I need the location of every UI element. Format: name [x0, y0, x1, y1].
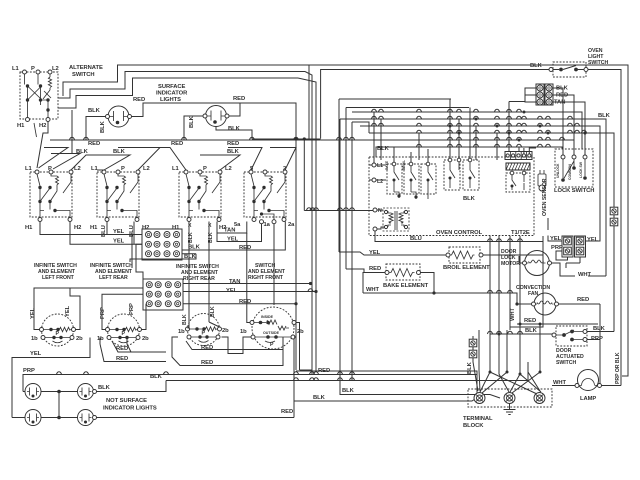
- wire s4 drops: [182, 222, 285, 251]
- svg-text:INDICATOR: INDICATOR: [156, 91, 188, 97]
- convection fan: [532, 293, 559, 315]
- wire xzone extra: [480, 362, 540, 392]
- wire s2h1 drop: [106, 222, 108, 235]
- wire s3 h2 to e3: [209, 241, 220, 327]
- wire oven light feed: [321, 70, 549, 139]
- infinite switch 1: [30, 170, 73, 222]
- svg-text:TAN: TAN: [224, 228, 235, 234]
- wire 2a rail: [295, 140, 297, 370]
- wire wht lamp: [552, 385, 575, 387]
- wire blk block1: [130, 254, 196, 262]
- svg-text:H1: H1: [25, 225, 33, 231]
- oven control terminal 2: [372, 178, 376, 182]
- wire red 327: [510, 255, 543, 327]
- door lock motor: [523, 251, 552, 276]
- svg-text:RED: RED: [227, 141, 239, 147]
- wire wht motor right: [588, 275, 606, 277]
- svg-text:LOCK SWITCH: LOCK SWITCH: [554, 188, 594, 194]
- wire dsw blk right: [587, 331, 614, 333]
- alternate switch terminal P: [36, 70, 40, 74]
- svg-text:BLK: BLK: [530, 63, 543, 69]
- svg-text:RED: RED: [201, 360, 213, 366]
- wire left feed 131: [340, 119, 358, 381]
- wire center vertical c: [298, 78, 316, 371]
- terminal block lug 3: [534, 393, 545, 404]
- svg-text:L1: L1: [172, 166, 179, 172]
- wire top bus 2: [58, 72, 305, 99]
- lock switch box: [555, 149, 593, 187]
- svg-text:N: N: [378, 208, 382, 214]
- svg-text:BLK: BLK: [227, 149, 240, 155]
- wire ctl out 499: [498, 236, 500, 334]
- oven control terminal 3: [373, 208, 377, 212]
- svg-text:PRP: PRP: [551, 245, 563, 251]
- wire blk 401: [294, 397, 478, 401]
- svg-text:WHT: WHT: [578, 272, 592, 278]
- svg-text:WHT: WHT: [510, 307, 516, 321]
- svg-text:T1/T2E: T1/T2E: [511, 230, 530, 236]
- wire bus drop 497: [496, 133, 498, 160]
- svg-text:BLK: BLK: [182, 314, 188, 325]
- wire alt drop 72: [71, 110, 73, 154]
- svg-text:1b: 1b: [240, 329, 247, 335]
- wire center vertical a: [308, 65, 310, 139]
- wire left feed 122: [352, 122, 369, 381]
- alternate switch pointer: [34, 123, 37, 137]
- wire drop 520: [520, 324, 541, 392]
- wire crossover bumps rail: [69, 137, 74, 140]
- wire dsw prp right: [587, 339, 600, 385]
- surface element right front dual: [250, 307, 296, 349]
- wire alt h2 to s1: [37, 122, 48, 169]
- terminal block box: [468, 389, 552, 407]
- svg-text:H2: H2: [39, 123, 46, 129]
- svg-text:INDICATOR LIGHTS: INDICATOR LIGHTS: [103, 406, 157, 412]
- surface indicator light 1: [106, 106, 132, 127]
- svg-text:P: P: [31, 66, 35, 72]
- wire rail surface feed: [50, 139, 321, 141]
- svg-text:1b: 1b: [178, 329, 185, 335]
- wire conn right down: [566, 257, 580, 268]
- wire red doorsw: [517, 323, 598, 325]
- svg-text:PRP OR BLK: PRP OR BLK: [615, 352, 621, 384]
- wire 370 horiz: [300, 369, 313, 371]
- svg-text:SURFACE: SURFACE: [158, 84, 186, 90]
- svg-text:H1: H1: [17, 123, 25, 129]
- svg-text:BLOCK: BLOCK: [463, 423, 484, 429]
- wire clock to sensor: [524, 148, 536, 154]
- wire bus right 133: [369, 133, 614, 332]
- wire s2h2 drop: [133, 222, 135, 245]
- svg-text:P: P: [203, 166, 207, 172]
- wire bus drop 419: [418, 133, 420, 160]
- alternate switch box: [20, 72, 58, 119]
- wire bus drop 459: [458, 119, 460, 160]
- wire lamp row 2: [12, 417, 294, 419]
- terminal lamp2 right: [93, 390, 97, 394]
- wire crossover bumps prp: [56, 372, 61, 375]
- bake element: [385, 264, 421, 280]
- wire lamp1 right lead RED: [132, 103, 297, 139]
- svg-text:P: P: [121, 166, 125, 172]
- wire ctl top blk: [373, 147, 375, 163]
- connector squares right: [610, 207, 618, 215]
- wire lamp2 left lead: [184, 116, 203, 140]
- relay bank b: [444, 158, 479, 190]
- svg-text:BLK: BLK: [188, 245, 201, 251]
- junction dots xzone: [489, 371, 492, 374]
- svg-text:PRP: PRP: [23, 368, 35, 374]
- svg-text:BLK: BLK: [463, 196, 476, 202]
- terminal lamp4 right: [93, 416, 97, 420]
- wire e2 right prp: [142, 304, 147, 330]
- wire drop 473: [473, 336, 478, 391]
- ground symbol: [504, 404, 516, 415]
- svg-text:L1: L1: [12, 66, 19, 72]
- oven control terminal 4: [373, 227, 377, 231]
- svg-text:BLK: BLK: [467, 361, 473, 374]
- wire s3 tan: [217, 222, 247, 234]
- svg-text:BLK: BLK: [100, 120, 106, 133]
- wire step red s1: [39, 148, 69, 169]
- svg-text:2b: 2b: [142, 336, 149, 342]
- svg-text:YEL: YEL: [30, 351, 42, 357]
- connector block 2: [143, 279, 183, 310]
- broil element: [446, 247, 483, 263]
- svg-text:BLK: BLK: [313, 395, 326, 401]
- svg-text:RED: RED: [171, 141, 183, 147]
- svg-text:2b: 2b: [222, 328, 229, 334]
- wire motor left: [519, 256, 523, 263]
- wire bus right 147: [393, 147, 562, 149]
- hot surface lamp 1: [25, 384, 41, 400]
- svg-text:2b: 2b: [76, 336, 83, 342]
- svg-text:H2: H2: [142, 225, 149, 231]
- wire link s1l2 s2l1: [71, 155, 130, 170]
- wire e3 red2: [172, 337, 283, 366]
- svg-text:LEFT FRONT: LEFT FRONT: [42, 275, 75, 281]
- wire center horiz 139: [252, 138, 321, 140]
- svg-text:BLK: BLK: [113, 149, 126, 155]
- wire step s2: [118, 148, 186, 171]
- wire conn blk: [509, 88, 563, 155]
- oven lamp: [575, 370, 602, 391]
- wire e1 left yel: [34, 288, 143, 330]
- svg-text:RIGHT REAR: RIGHT REAR: [183, 276, 215, 282]
- door connector left: [562, 236, 573, 257]
- svg-text:YEL: YEL: [113, 229, 125, 235]
- wire top bus 3: [58, 78, 298, 108]
- wire s3h1 drop: [188, 222, 190, 230]
- wire tan row: [183, 283, 311, 285]
- surface element right rear: [186, 314, 222, 346]
- svg-text:SWITCH: SWITCH: [588, 60, 608, 66]
- wire e3 to e4 link: [222, 337, 252, 354]
- svg-text:OVEN SENSOR: OVEN SENSOR: [542, 178, 548, 216]
- oven sensor: [538, 170, 546, 191]
- wire e2 left prp: [102, 294, 143, 329]
- svg-text:UNLOCK: UNLOCK: [556, 163, 560, 178]
- svg-text:RED: RED: [524, 318, 536, 324]
- svg-text:BLK: BLK: [598, 113, 611, 119]
- infinite switch 3: [179, 170, 222, 222]
- wire prp conn: [556, 251, 568, 260]
- svg-text:BLK: BLK: [189, 115, 195, 128]
- wire right edge end: [622, 363, 628, 376]
- svg-text:BROIL: BROIL: [402, 160, 406, 170]
- surface element left rear: [106, 314, 142, 346]
- svg-text:P: P: [270, 342, 274, 348]
- svg-text:RED: RED: [369, 266, 381, 272]
- wire s4 to e4 top: [273, 224, 275, 305]
- alternate switch terminal H1: [26, 118, 30, 122]
- svg-text:BLK: BLK: [150, 374, 163, 380]
- wire s3 h1 to e3: [188, 229, 190, 328]
- wire yel row: [183, 291, 316, 293]
- wire drop 490: [490, 327, 537, 394]
- svg-text:L1: L1: [377, 163, 383, 169]
- svg-text:2b: 2b: [297, 329, 304, 335]
- door connector right: [575, 236, 586, 257]
- svg-text:RED: RED: [577, 297, 589, 303]
- svg-text:YEL: YEL: [227, 237, 239, 243]
- svg-text:YEL: YEL: [113, 239, 125, 245]
- wire left feed 99: [339, 99, 451, 252]
- wire blk lower bus: [166, 362, 528, 392]
- svg-text:PRP: PRP: [129, 303, 135, 315]
- wire blk 394: [340, 381, 500, 398]
- wire bus right 126: [360, 126, 600, 146]
- svg-text:INSIDE: INSIDE: [261, 315, 274, 319]
- svg-text:YEL: YEL: [65, 305, 71, 317]
- wire bake right wht: [363, 273, 532, 305]
- wire conn tan: [553, 102, 585, 155]
- svg-text:BLU: BLU: [101, 225, 107, 237]
- svg-text:P: P: [48, 166, 52, 172]
- svg-text:H2: H2: [74, 225, 81, 231]
- alternate switch terminal L1: [23, 70, 27, 74]
- wire e4 feeds: [247, 233, 250, 323]
- wire left feed 107: [346, 108, 469, 270]
- svg-text:H1: H1: [90, 225, 98, 231]
- svg-text:L1: L1: [91, 166, 98, 172]
- wire prp bottom: [23, 375, 477, 392]
- clock connector: [505, 152, 532, 171]
- svg-text:YEL: YEL: [587, 237, 599, 243]
- svg-text:LIGHTS: LIGHTS: [160, 97, 181, 103]
- wire bus drop 381: [380, 119, 382, 160]
- wire block1 to block2 left: [132, 235, 143, 285]
- svg-text:BLK: BLK: [525, 328, 538, 334]
- wire ctl out 510: [507, 236, 510, 330]
- infinite switch 2: [97, 170, 140, 222]
- wire drop 479: [479, 330, 480, 391]
- wire ctl out 520: [519, 236, 521, 324]
- svg-text:PRP: PRP: [100, 307, 106, 319]
- svg-text:BAKE ELEMENT: BAKE ELEMENT: [383, 283, 429, 289]
- svg-text:BLK: BLK: [184, 254, 197, 260]
- svg-text:L2: L2: [74, 166, 81, 172]
- wire fan right red: [559, 304, 601, 339]
- svg-text:2a: 2a: [288, 222, 295, 228]
- wire broil right: [483, 236, 543, 255]
- wire bus right 119: [340, 119, 606, 276]
- wire bus right 140: [417, 140, 574, 149]
- junction dots bus: [449, 125, 452, 128]
- svg-text:MOTOR: MOTOR: [501, 261, 520, 267]
- svg-text:2: 2: [283, 166, 286, 172]
- wire top bus 1: [63, 65, 628, 363]
- svg-text:LAMP: LAMP: [580, 396, 596, 402]
- wire s3 yel: [209, 224, 262, 242]
- wire lamp2 bottom BLK: [216, 127, 252, 140]
- svg-text:SWITCH: SWITCH: [556, 360, 576, 366]
- svg-text:OUTSIDE: OUTSIDE: [263, 331, 280, 335]
- terminal block lug 2: [504, 393, 515, 404]
- svg-text:OVEN CONTROL: OVEN CONTROL: [436, 230, 483, 236]
- wire e1 right yel: [70, 288, 80, 330]
- wire lamp2 right lead RED: [229, 103, 240, 116]
- svg-text:BLK: BLK: [210, 306, 216, 317]
- wire blk doorsw: [490, 333, 552, 335]
- svg-text:NOT SURFACE: NOT SURFACE: [106, 398, 147, 404]
- svg-text:RED: RED: [239, 245, 251, 251]
- svg-text:COMMON: COMMON: [568, 164, 572, 180]
- svg-text:H1: H1: [172, 225, 180, 231]
- wire bus drop 374: [373, 112, 375, 165]
- svg-text:TERMINAL: TERMINAL: [463, 416, 493, 422]
- wire left feed 140: [321, 140, 417, 157]
- oven control box: [369, 157, 534, 236]
- wire step blk s1: [51, 154, 80, 170]
- svg-text:RED: RED: [133, 97, 145, 103]
- svg-text:ALTERNATE: ALTERNATE: [69, 65, 103, 71]
- wire red 371: [296, 371, 477, 393]
- terminal block lug 1: [474, 393, 485, 404]
- svg-text:BLK: BLK: [76, 149, 89, 155]
- svg-text:RED: RED: [281, 409, 293, 415]
- terminal s4 1a: [260, 220, 264, 224]
- svg-text:SWITCH: SWITCH: [72, 72, 95, 78]
- wire lamp row 1: [23, 381, 166, 392]
- door actuated switch: [552, 326, 587, 346]
- oven control terminal L1: [372, 163, 376, 167]
- transformer: [383, 208, 409, 231]
- wire yel left: [548, 218, 562, 241]
- svg-text:L1: L1: [25, 166, 32, 172]
- wire bus drop 450: [449, 99, 451, 160]
- wire yel bake row: [339, 252, 446, 255]
- wire bus drop 519: [518, 147, 520, 152]
- svg-text:TAN: TAN: [229, 279, 240, 285]
- svg-text:WHT: WHT: [366, 287, 380, 293]
- connector block 1: [142, 229, 182, 260]
- hot surface lamp 4: [78, 410, 94, 426]
- svg-text:RED: RED: [201, 345, 213, 351]
- relay bank c: [506, 171, 530, 192]
- wire lamp1 left lead: [86, 117, 106, 141]
- wire lamp right: [602, 374, 622, 386]
- wire center vertical b: [305, 72, 312, 376]
- oven light switch: [549, 62, 588, 77]
- wire oven light to right: [588, 70, 621, 375]
- hot surface lamp 2: [78, 384, 94, 400]
- svg-text:1b: 1b: [97, 336, 104, 342]
- svg-text:RED: RED: [116, 356, 128, 362]
- wire crossover bumps blk bus: [293, 378, 298, 381]
- wire motor right wht: [552, 263, 576, 276]
- wire red bake row: [346, 269, 385, 273]
- svg-text:BLK: BLK: [88, 108, 101, 114]
- svg-text:RED: RED: [233, 96, 245, 102]
- wire bus right 112: [352, 112, 582, 149]
- wire yel bottom: [12, 338, 90, 418]
- wire red row: [183, 303, 296, 305]
- wire relay drops: [394, 147, 428, 162]
- wire ctl out 490: [489, 236, 491, 327]
- wire s1h1 to block1: [40, 222, 142, 235]
- svg-text:BLK: BLK: [342, 388, 355, 394]
- alternate switch terminal H2: [46, 118, 50, 122]
- terminal s4 middle: [272, 220, 276, 224]
- surface indicator light 2: [203, 106, 229, 127]
- wire e2 red2: [100, 338, 166, 362]
- alternate switch terminal L2: [48, 70, 52, 74]
- wire step s3: [200, 148, 296, 171]
- wire bus drop 476: [475, 126, 477, 160]
- alternate switch internal contacts: [25, 74, 52, 118]
- svg-text:BROIL ELEMENT: BROIL ELEMENT: [443, 265, 490, 271]
- wire riser 470: [469, 108, 471, 161]
- wire conn red: [553, 95, 574, 155]
- surface element left front: [40, 314, 76, 346]
- relay bank a: [385, 160, 436, 199]
- wire s4 internal link: [262, 214, 275, 220]
- wire drop 507: [482, 330, 507, 393]
- svg-text:RIGHT FRONT: RIGHT FRONT: [248, 275, 284, 281]
- svg-text:BLK: BLK: [98, 385, 111, 391]
- svg-text:BLK: BLK: [228, 126, 241, 132]
- svg-text:RED: RED: [88, 141, 100, 147]
- svg-text:L2: L2: [225, 166, 232, 172]
- hot surface lamp 3: [25, 410, 41, 426]
- svg-text:1b: 1b: [31, 336, 38, 342]
- svg-text:L2: L2: [52, 66, 59, 72]
- wire e4 2b down: [294, 337, 295, 418]
- wire drop 499: [499, 334, 509, 392]
- svg-text:LOCK SW: LOCK SW: [579, 161, 583, 178]
- wire e2 red lower: [112, 338, 166, 353]
- svg-text:RED: RED: [116, 346, 128, 352]
- junction lamp rows: [58, 392, 60, 418]
- connector 3pin: [536, 84, 553, 105]
- infinite switch 4: [244, 170, 287, 222]
- wire bus drop 509: [508, 140, 510, 152]
- wire e4 right: [296, 323, 300, 371]
- connector squares left drop: [469, 339, 477, 347]
- svg-text:LEFT REAR: LEFT REAR: [99, 275, 128, 281]
- wire drop 540: [512, 324, 540, 393]
- svg-text:1a: 1a: [264, 222, 271, 228]
- wire blu ctl: [375, 231, 543, 242]
- wire yel right: [586, 146, 600, 241]
- wire ctl left terminals: [304, 139, 386, 229]
- wire s1h2 to block1: [70, 222, 142, 245]
- svg-text:L2: L2: [143, 166, 150, 172]
- wire s3h2 drop: [208, 222, 210, 237]
- svg-text:YEL: YEL: [30, 307, 36, 319]
- wire e3 red lower: [186, 337, 283, 350]
